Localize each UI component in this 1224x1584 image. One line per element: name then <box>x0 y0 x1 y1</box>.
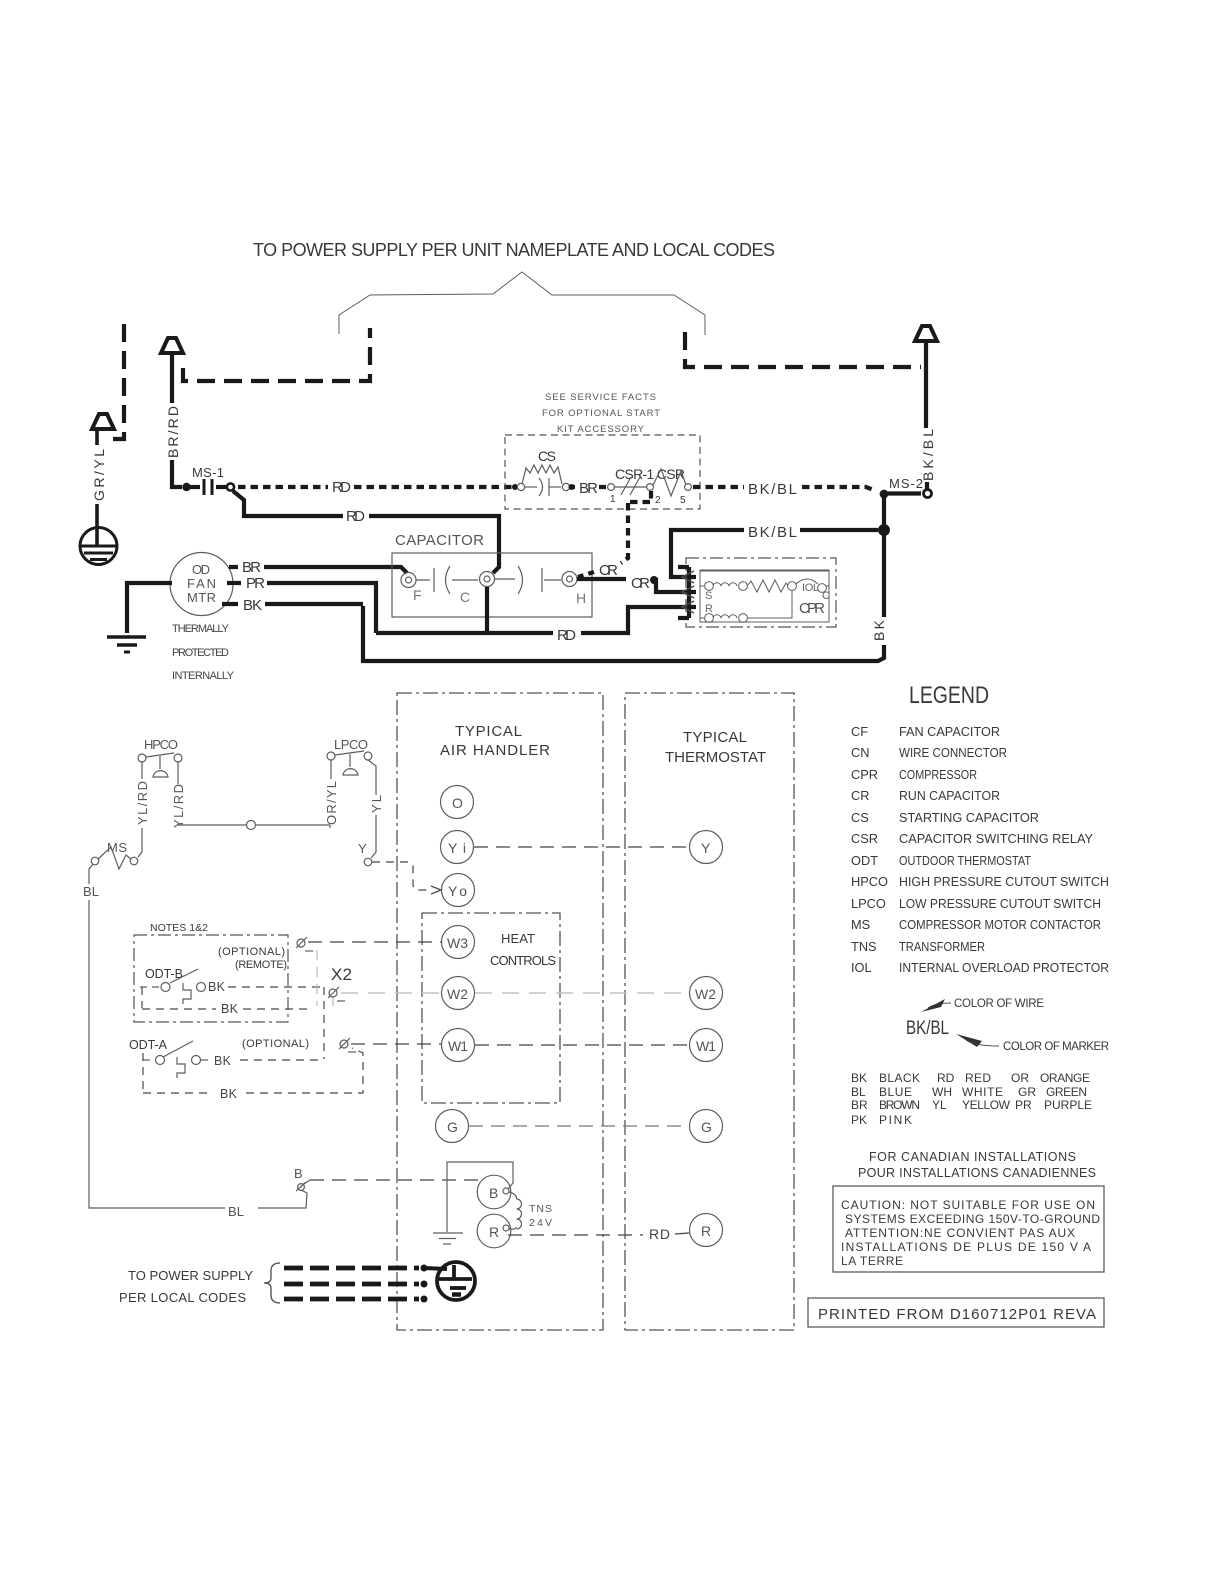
terminal W1 remote <box>339 1038 356 1052</box>
transformer TNS: terminal R <box>477 1214 511 1248</box>
svg-text:G: G <box>701 1119 712 1135</box>
brace <box>264 1263 280 1303</box>
wire: dashed Y to Yo <box>372 862 432 890</box>
svg-text:PURPLE: PURPLE <box>1044 1098 1092 1112</box>
svg-text:FAN: FAN <box>187 576 216 591</box>
svg-text:GR/YL: GR/YL <box>91 449 107 501</box>
box: heat controls (dash-dot) <box>422 913 560 1103</box>
wire: HPCO to LPCO horizontal with connector <box>178 824 246 826</box>
ground symbol (bold circle earth) <box>437 1262 475 1300</box>
box: printed from <box>808 1298 1104 1327</box>
svg-text:COMPRESSOR: COMPRESSOR <box>899 767 977 782</box>
svg-text:HPCO: HPCO <box>144 737 178 752</box>
terminal flag GR/YL <box>92 414 114 429</box>
wire: BK/BL from MS-2 down to junction <box>882 497 886 530</box>
wire: dashed G to G <box>469 1125 689 1127</box>
label BL on horizontal <box>225 1203 258 1216</box>
svg-text:BK/BL: BK/BL <box>748 524 797 541</box>
svg-text:AIR HANDLER: AIR HANDLER <box>440 742 550 759</box>
svg-text:FOR OPTIONAL START: FOR OPTIONAL START <box>542 408 660 419</box>
terminal Y (thermostat) <box>690 831 723 864</box>
wire: dashed power right to BK/BL flag <box>685 332 921 367</box>
svg-text:HEAT: HEAT <box>501 931 535 946</box>
svg-text:STARTING CAPACITOR: STARTING CAPACITOR <box>899 810 1039 825</box>
wire: dark dashed vertical ODT-B to ODT-A <box>323 987 325 1059</box>
svg-text:CS: CS <box>538 448 556 464</box>
svg-text:TNS: TNS <box>529 1203 552 1215</box>
motor OD FAN MTR <box>170 553 233 616</box>
terminal G (air handler) <box>436 1110 469 1143</box>
CPR terminal bus bracket <box>678 567 689 618</box>
terminal F <box>401 573 422 604</box>
svg-text:ORANGE: ORANGE <box>1040 1071 1090 1085</box>
wire: RD solid from MS-1 down <box>233 491 343 516</box>
svg-text:W2: W2 <box>447 986 468 1002</box>
terminal R (thermostat) <box>690 1214 723 1247</box>
TNS ground <box>433 1233 463 1244</box>
svg-text:GR: GR <box>1018 1085 1036 1099</box>
wire: BK/BL vertical with label <box>926 341 927 489</box>
svg-text:SEE SERVICE FACTS: SEE SERVICE FACTS <box>545 392 656 403</box>
svg-text:WIRE CONNECTOR: WIRE CONNECTOR <box>899 745 1007 760</box>
svg-text:H: H <box>576 590 586 606</box>
box: optional start kit (dashed) <box>505 435 700 509</box>
wire: BR/RD vertical <box>172 352 182 487</box>
terminal flag BR/RD <box>161 338 183 353</box>
svg-text:OD: OD <box>192 562 210 577</box>
wire: dashed R to R with RD label <box>508 1234 643 1236</box>
wire: HPCO left leg YL/RD <box>138 762 142 857</box>
svg-text:W1: W1 <box>696 1038 716 1054</box>
wire: RD from capacitor C to CPR R <box>376 587 553 633</box>
svg-text:BK/BL: BK/BL <box>748 481 797 498</box>
wire: BK down from junction <box>363 530 884 661</box>
svg-text:BK: BK <box>208 980 226 994</box>
svg-text:PINK: PINK <box>879 1113 912 1127</box>
svg-text:IOL: IOL <box>851 960 872 975</box>
svg-text:BL: BL <box>228 1204 244 1219</box>
wire: HPCO right leg YL/RD <box>177 762 179 784</box>
terminal G (thermostat) <box>690 1110 723 1143</box>
svg-text:LOW PRESSURE CUTOUT SWITCH: LOW PRESSURE CUTOUT SWITCH <box>899 896 1101 911</box>
wire: dashed from BR/RD terminal to power supply <box>183 328 370 381</box>
svg-text:BK/BL: BK/BL <box>920 429 936 481</box>
svg-text:BK: BK <box>220 1087 238 1101</box>
svg-text:RD: RD <box>937 1071 955 1085</box>
svg-text:R: R <box>701 1223 711 1239</box>
capacitor CS <box>512 448 575 496</box>
svg-text:YL/RD: YL/RD <box>171 784 186 828</box>
svg-text:BLACK: BLACK <box>879 1071 920 1085</box>
contactor MS-1 <box>182 465 234 495</box>
svg-text:INSTALLATIONS DE PLUS DE 150 V: INSTALLATIONS DE PLUS DE 150 V A <box>841 1240 1091 1254</box>
svg-text:CR: CR <box>851 788 869 803</box>
svg-text:(REMOTE): (REMOTE) <box>235 959 287 971</box>
svg-text:W3: W3 <box>447 935 468 951</box>
wire: LPCO left leg OR/YL <box>330 760 332 779</box>
svg-text:RED: RED <box>965 1071 991 1085</box>
svg-text:INTERNALLY: INTERNALLY <box>172 670 235 682</box>
TNS coil and wiring <box>447 1162 522 1232</box>
svg-text:BR/RD: BR/RD <box>165 406 181 458</box>
svg-text:LPCO: LPCO <box>334 737 368 752</box>
wire: light remote vertical <box>316 950 318 1006</box>
wire: dashed Yi to Y <box>474 846 689 848</box>
svg-text:YL: YL <box>932 1098 947 1112</box>
svg-text:OR: OR <box>599 562 618 579</box>
terminal Yi (air handler) <box>441 831 474 864</box>
svg-text:BK: BK <box>221 1002 239 1016</box>
svg-text:GREEN: GREEN <box>1046 1085 1087 1099</box>
svg-text:TNS: TNS <box>851 939 877 954</box>
svg-text:CPR: CPR <box>799 600 825 617</box>
svg-text:CSR-1 CSR: CSR-1 CSR <box>615 466 685 482</box>
svg-text:CAUTION: NOT SUITABLE FOR USE: CAUTION: NOT SUITABLE FOR USE ON <box>841 1198 1095 1212</box>
wire: power lead 2 <box>284 1282 419 1287</box>
svg-text:ODT-A: ODT-A <box>129 1038 168 1052</box>
svg-text:C: C <box>460 589 470 605</box>
transformer TNS: terminal B <box>477 1175 511 1209</box>
svg-text:TO POWER SUPPLY PER UNIT NAMEP: TO POWER SUPPLY PER UNIT NAMEPLATE AND L… <box>253 240 775 260</box>
contactor MS-2 <box>880 476 932 498</box>
terminal W3 remote <box>296 937 313 951</box>
plug arrows into CPR <box>682 571 694 613</box>
CPR internal overload IOL <box>700 571 830 602</box>
pressure switch HPCO <box>138 737 182 777</box>
svg-text:W1: W1 <box>448 1038 468 1054</box>
svg-text:THERMALLY: THERMALLY <box>172 623 230 635</box>
wire: BL to transformer B terminal <box>284 1190 307 1208</box>
terminal W1 (air handler) <box>442 1029 475 1062</box>
svg-text:RD: RD <box>332 479 351 496</box>
svg-text:Y: Y <box>701 840 711 856</box>
wire: dashed to W1 <box>351 1043 441 1045</box>
svg-text:R: R <box>489 1224 499 1240</box>
terminal W2 (air handler) <box>442 977 475 1010</box>
ground symbol (circle earth) <box>80 528 117 565</box>
svg-text:TYPICAL: TYPICAL <box>455 723 522 740</box>
svg-text:SYSTEMS EXCEEDING 150V-TO-GROU: SYSTEMS EXCEEDING 150V-TO-GROUND <box>845 1212 1100 1226</box>
svg-text:24V: 24V <box>529 1217 552 1229</box>
wire: dashed B to air handler B <box>310 1179 478 1181</box>
svg-text:PER LOCAL CODES: PER LOCAL CODES <box>119 1290 246 1305</box>
svg-text:TRANSFORMER: TRANSFORMER <box>899 939 985 954</box>
svg-text:OR: OR <box>631 575 650 592</box>
svg-text:1: 1 <box>610 494 616 505</box>
svg-text:BK: BK <box>214 1054 232 1068</box>
CPR run winding R <box>700 590 792 622</box>
svg-text:HIGH PRESSURE CUTOUT SWITCH: HIGH PRESSURE CUTOUT SWITCH <box>899 874 1109 889</box>
svg-text:WH: WH <box>932 1085 952 1099</box>
wire: dashed W1 to W1 <box>475 1044 689 1046</box>
svg-text:ODT: ODT <box>851 853 878 868</box>
svg-text:RUN CAPACITOR: RUN CAPACITOR <box>899 788 1000 803</box>
svg-text:(OPTIONAL): (OPTIONAL) <box>218 946 285 958</box>
wire: PR from fan to capacitor bottom <box>227 581 241 585</box>
capacitor plates F-C <box>416 566 478 594</box>
svg-text:OR: OR <box>1011 1071 1029 1085</box>
svg-text:OR/YL: OR/YL <box>324 781 339 825</box>
svg-text:FOR CANADIAN INSTALLATIONS: FOR CANADIAN INSTALLATIONS <box>869 1150 1076 1164</box>
svg-text:BL: BL <box>83 884 99 899</box>
wire: GR/YL dashed power lead <box>113 324 124 439</box>
svg-text:OUTDOOR THERMOSTAT: OUTDOOR THERMOSTAT <box>899 853 1031 868</box>
box: capacitor <box>392 553 592 617</box>
wire: GR/YL to ground <box>95 429 99 546</box>
legend entries <box>851 724 1109 975</box>
svg-text:BR: BR <box>851 1098 868 1112</box>
svg-text:O: O <box>452 795 463 811</box>
svg-text:W2: W2 <box>695 986 716 1002</box>
svg-text:PK: PK <box>851 1113 867 1127</box>
svg-text:R: R <box>705 603 713 615</box>
svg-text:CAPACITOR: CAPACITOR <box>395 532 484 549</box>
wire: BL from MS down <box>89 864 284 1208</box>
svg-text:B: B <box>294 1166 303 1181</box>
svg-text:BLUE: BLUE <box>879 1085 912 1099</box>
bracket under title <box>339 272 705 335</box>
svg-text:PR: PR <box>246 575 265 592</box>
svg-text:S: S <box>705 590 712 602</box>
relay contact CSR-1 <box>608 466 692 506</box>
svg-text:ATTENTION:NE CONVIENT PAS AUX: ATTENTION:NE CONVIENT PAS AUX <box>845 1226 1075 1240</box>
svg-text:YELLOW: YELLOW <box>962 1098 1011 1112</box>
wire: dashed BK from ODT-B <box>228 986 324 988</box>
svg-text:5: 5 <box>680 495 686 506</box>
svg-text:MS-2: MS-2 <box>889 476 923 491</box>
svg-text:BK: BK <box>871 619 887 641</box>
ground (earth bars) <box>107 637 146 652</box>
svg-text:LPCO: LPCO <box>851 896 886 911</box>
svg-text:TO POWER SUPPLY: TO POWER SUPPLY <box>128 1268 253 1283</box>
svg-text:THERMOSTAT: THERMOSTAT <box>665 749 766 766</box>
svg-text:CS: CS <box>851 810 869 825</box>
svg-text:WHITE: WHITE <box>962 1085 1003 1099</box>
wire: power lead 1 <box>284 1266 419 1271</box>
box: CPR inner <box>700 570 829 622</box>
svg-text:BL: BL <box>851 1085 866 1099</box>
svg-text:BK/BL: BK/BL <box>906 1018 949 1039</box>
svg-text:INTERNAL OVERLOAD PROTECTOR: INTERNAL OVERLOAD PROTECTOR <box>899 960 1109 975</box>
terminal W1 (thermostat) <box>690 1029 723 1062</box>
svg-text:CAPACITOR SWITCHING RELAY: CAPACITOR SWITCHING RELAY <box>899 831 1093 846</box>
terminal W3 (air handler) <box>442 926 475 959</box>
svg-text:RD: RD <box>346 508 365 525</box>
pressure switch LPCO <box>327 737 372 775</box>
svg-text:BK: BK <box>243 597 262 614</box>
wire: dashed BK from ODT-A <box>240 1059 324 1061</box>
svg-text:COMPRESSOR MOTOR CONTACTOR: COMPRESSOR MOTOR CONTACTOR <box>899 917 1101 932</box>
terminal O (air handler) <box>441 786 474 819</box>
wire: dashed RD line to CS box <box>238 485 328 489</box>
svg-text:CSR: CSR <box>851 831 878 846</box>
wire: light dashed W2 to W2 <box>475 992 689 994</box>
svg-text:X2: X2 <box>331 965 352 984</box>
svg-text:BR: BR <box>579 480 598 497</box>
svg-text:COLOR OF MARKER: COLOR OF MARKER <box>1003 1041 1109 1053</box>
svg-text:B: B <box>489 1185 498 1201</box>
terminal W2 (thermostat) <box>690 977 723 1010</box>
wire: BK/BL heavy dashed from CSR to MS-2 <box>693 485 744 489</box>
junction dot <box>878 524 890 536</box>
wire: fan motor to ground <box>127 583 172 633</box>
box: thermostat (dash-dot) <box>625 693 794 1330</box>
terminal H <box>562 572 586 607</box>
svg-text:RD: RD <box>649 1226 670 1242</box>
contactor coil MS <box>91 840 138 869</box>
wire: power lead 3 <box>284 1297 419 1302</box>
svg-text:BR: BR <box>242 559 261 576</box>
box: ODT-A dashed outline <box>143 1053 212 1093</box>
svg-text:TYPICAL: TYPICAL <box>683 729 747 746</box>
box: air handler (dash-dot) <box>397 693 603 1330</box>
svg-text:LEGEND: LEGEND <box>909 682 989 709</box>
svg-text:HPCO: HPCO <box>851 874 888 889</box>
svg-text:2: 2 <box>655 495 661 506</box>
box: caution <box>833 1186 1104 1272</box>
svg-text:PR: PR <box>1015 1098 1032 1112</box>
svg-text:CONTROLS: CONTROLS <box>490 953 556 968</box>
svg-text:F: F <box>413 587 422 603</box>
svg-text:LA TERRE: LA TERRE <box>841 1254 903 1268</box>
svg-text:MTR: MTR <box>187 590 216 605</box>
wire: dashed BK lower (ODT-B box) <box>142 1008 216 1010</box>
terminal C <box>460 572 495 606</box>
svg-text:(OPTIONAL): (OPTIONAL) <box>242 1038 309 1050</box>
wire: dashed OR from CSR-2 to H <box>621 491 651 563</box>
svg-text:POUR INSTALLATIONS CANADIENNES: POUR INSTALLATIONS CANADIENNES <box>858 1166 1096 1180</box>
svg-text:PROTECTED: PROTECTED <box>172 647 229 659</box>
svg-text:IOL: IOL <box>802 582 819 594</box>
svg-text:MS: MS <box>851 917 870 932</box>
wire: heavy dash BR inside CS box <box>599 485 606 489</box>
svg-text:Y: Y <box>358 841 367 856</box>
svg-text:NOTES 1&2: NOTES 1&2 <box>150 922 208 934</box>
capacitor plates C-H <box>495 566 561 594</box>
svg-text:BROWN: BROWN <box>879 1098 920 1112</box>
compressor CPR outer box (dash-dot) <box>686 558 836 627</box>
wire: LPCO right leg YL <box>368 760 376 858</box>
wire: BK from fan <box>222 602 238 606</box>
svg-text:FAN CAPACITOR: FAN CAPACITOR <box>899 724 1000 739</box>
wire: BK/BL horizontal to CPR <box>800 528 878 532</box>
svg-text:CN: CN <box>851 745 869 760</box>
svg-text:YL/RD: YL/RD <box>135 781 150 825</box>
color code table <box>851 1071 1092 1127</box>
svg-text:CPR: CPR <box>851 767 878 782</box>
box: ODT-B (dash-dot) <box>134 935 288 1022</box>
wire: OR heavy from H to CPR S <box>577 577 626 581</box>
svg-text:KIT ACCESSORY: KIT ACCESSORY <box>557 424 645 435</box>
wire: dashed to W3 <box>308 941 441 943</box>
svg-text:G: G <box>447 1119 458 1135</box>
terminal Yo (air handler) <box>442 874 475 907</box>
wire: BR from fan to capacitor F <box>229 565 238 569</box>
terminal flag BK/BL <box>915 326 937 341</box>
svg-text:CF: CF <box>851 724 868 739</box>
svg-text:BK: BK <box>851 1071 867 1085</box>
CPR start winding S <box>700 580 796 602</box>
svg-text:PRINTED FROM D160712P01 REVA: PRINTED FROM D160712P01 REVA <box>818 1306 1096 1323</box>
svg-text:RD: RD <box>557 627 576 644</box>
svg-text:COLOR OF WIRE: COLOR OF WIRE <box>954 998 1044 1010</box>
wire: light dashed X2 to W2 <box>341 992 441 994</box>
svg-text:MS-1: MS-1 <box>192 465 224 480</box>
